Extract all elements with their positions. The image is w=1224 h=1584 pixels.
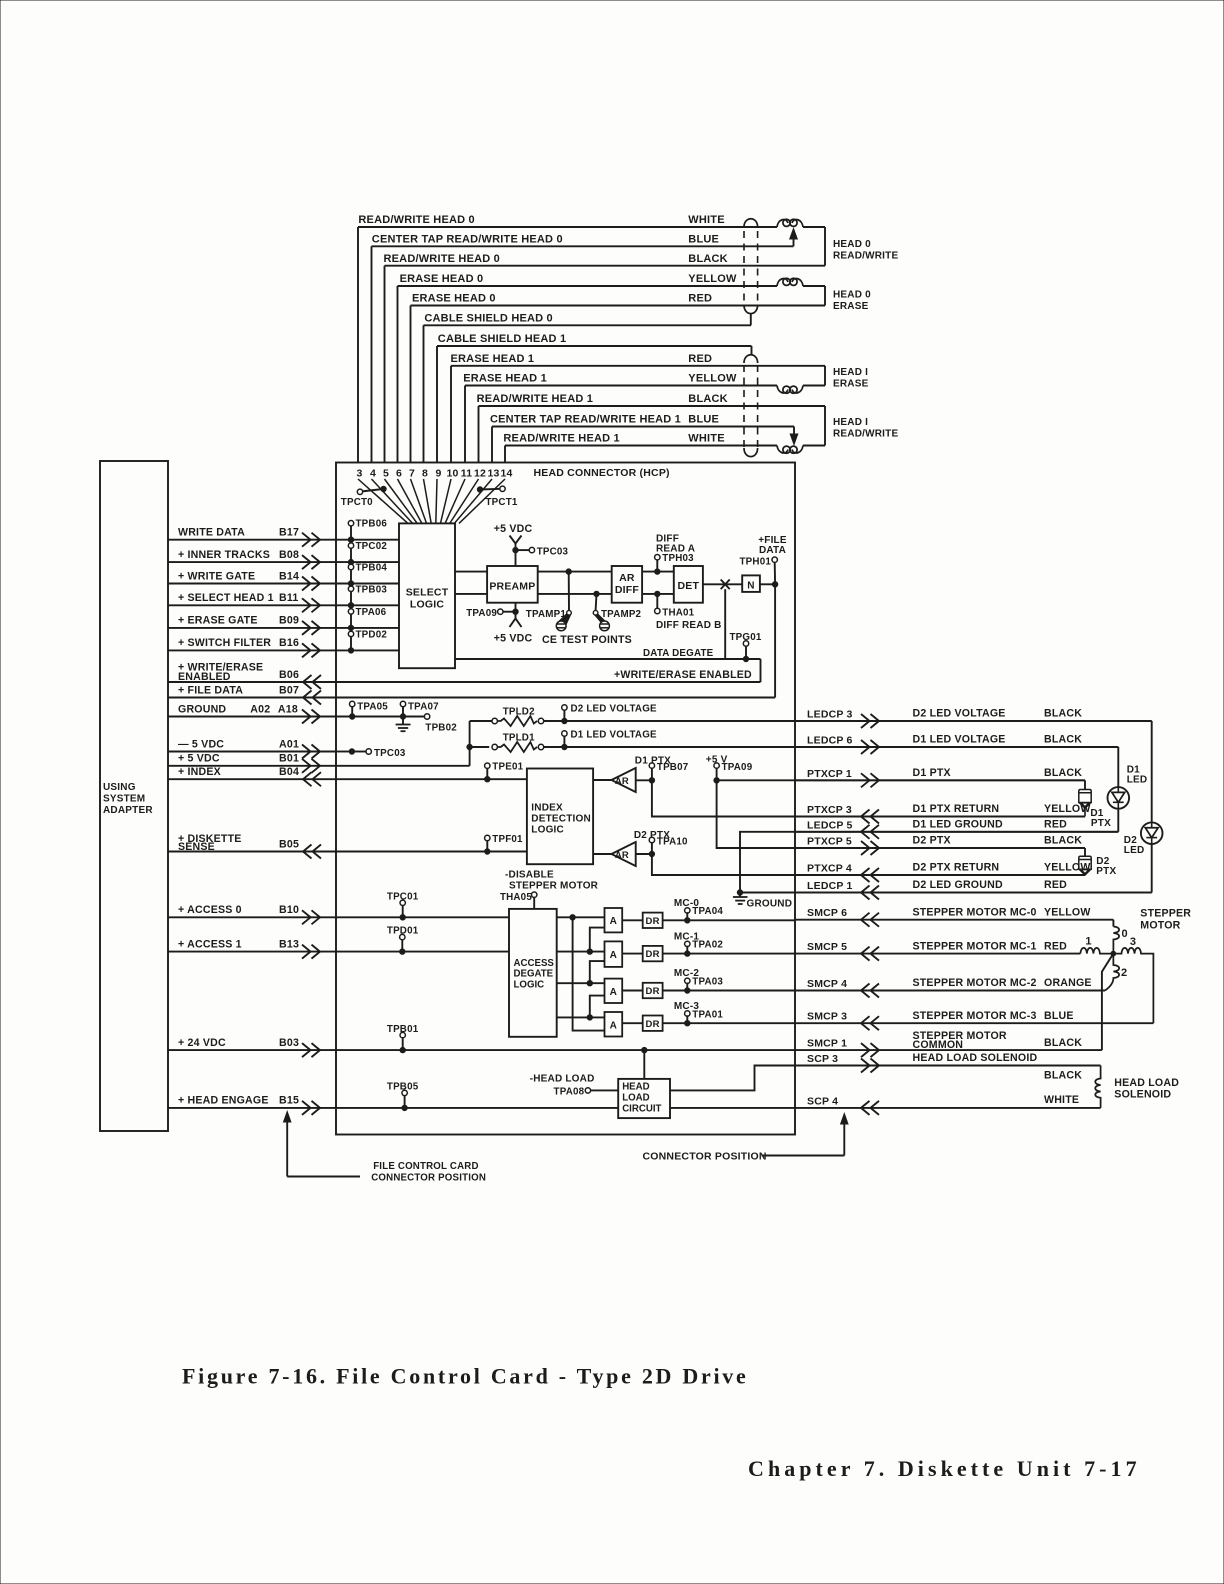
svg-text:N: N bbox=[747, 580, 754, 591]
test point TPA06 bbox=[350, 614, 352, 628]
chevron SMCP 6 bbox=[861, 913, 870, 927]
svg-text:TPC02: TPC02 bbox=[356, 541, 388, 552]
svg-text:+ HEAD ENGAGE: + HEAD ENGAGE bbox=[178, 1095, 269, 1107]
svg-text:LED: LED bbox=[1127, 775, 1148, 786]
chevron SCP 4 bbox=[861, 1101, 870, 1115]
wire + ACCESS 0 row bbox=[168, 916, 336, 918]
svg-text:3: 3 bbox=[356, 468, 362, 480]
wire +5VDC B01 to resistor feed bbox=[336, 765, 470, 767]
block SELECT LOGIC bbox=[399, 523, 455, 668]
chevron PTXCP 3 bbox=[861, 810, 870, 824]
wire head pin 8: CABLE SHIELD HEAD 0 bbox=[424, 325, 752, 462]
wire head pin 6: ERASE HEAD 0 bbox=[398, 286, 778, 463]
wire head pin 10: ERASE HEAD 1 bbox=[451, 366, 825, 463]
block HEAD LOAD CIRCUIT bbox=[618, 1079, 670, 1118]
svg-text:HEAD LOAD SOLENOID: HEAD LOAD SOLENOID bbox=[913, 1052, 1038, 1064]
wire D2 LED VOLTAGE bbox=[544, 720, 1152, 722]
svg-text:CE TEST POINTS: CE TEST POINTS bbox=[542, 634, 632, 646]
block INDEX DETECTION LOGIC bbox=[527, 769, 593, 865]
svg-text:PTX: PTX bbox=[1096, 866, 1116, 877]
svg-text:-HEAD LOAD: -HEAD LOAD bbox=[530, 1074, 595, 1085]
chevron LEDCP 5 bbox=[861, 825, 870, 839]
chevron B13 bbox=[312, 945, 321, 959]
test point TPB06 bbox=[350, 525, 352, 539]
svg-text:BLACK: BLACK bbox=[1044, 767, 1082, 779]
svg-text:— 5 VDC: — 5 VDC bbox=[178, 738, 224, 750]
svg-text:B16: B16 bbox=[279, 637, 299, 649]
amplifier A4 bbox=[605, 1012, 623, 1037]
stepper motor center node bbox=[1111, 951, 1116, 956]
svg-text:D1 LED VOLTAGE: D1 LED VOLTAGE bbox=[913, 734, 1006, 746]
svg-text:YELLOW: YELLOW bbox=[688, 373, 737, 385]
svg-text:Chapter 7. Diskette Unit 7-1: Chapter 7. Diskette Unit 7-17 bbox=[748, 1456, 1141, 1481]
wire B05 diskette sense inside bbox=[336, 851, 527, 853]
chevron SMCP 1 bbox=[871, 1043, 880, 1057]
chevron PTXCP 4 bbox=[861, 868, 870, 882]
wire + ACCESS 1 row bbox=[168, 951, 336, 953]
wire DR2 output MC-1 bbox=[663, 953, 795, 955]
wire preamp to AR DIFF (lower) bbox=[538, 593, 612, 595]
svg-text:3: 3 bbox=[1130, 936, 1136, 948]
wire head0 erase coil to bracket bbox=[803, 285, 825, 287]
svg-text:+ WRITE GATE: + WRITE GATE bbox=[178, 570, 255, 582]
coil head 1 erase L3 bbox=[777, 386, 788, 393]
svg-text:TPA02: TPA02 bbox=[692, 940, 723, 951]
svg-text:DR: DR bbox=[646, 1019, 660, 1030]
svg-text:HEAD I: HEAD I bbox=[833, 417, 868, 428]
chevron SCP 3 bbox=[871, 1059, 880, 1073]
wire SMCP 1 row bbox=[795, 1049, 1102, 1051]
test point TPB03 bbox=[350, 591, 352, 605]
stepper motor coil 0 bbox=[1112, 920, 1114, 927]
svg-text:BLACK: BLACK bbox=[1044, 1037, 1082, 1049]
svg-text:BLACK: BLACK bbox=[1044, 708, 1082, 720]
LED D1 bbox=[1117, 747, 1119, 787]
svg-text:+ ACCESS 1: + ACCESS 1 bbox=[178, 938, 242, 950]
wire preamp to AR DIFF (upper) bbox=[538, 571, 612, 573]
fan wires pins to select logic bbox=[358, 479, 505, 523]
svg-text:B14: B14 bbox=[279, 570, 299, 582]
svg-text:READ/WRITE: READ/WRITE bbox=[833, 428, 898, 439]
chevron A02 A18 bbox=[312, 710, 321, 724]
svg-text:A01: A01 bbox=[279, 738, 299, 750]
svg-text:TPCT1: TPCT1 bbox=[486, 497, 518, 508]
wire AR DIFF to DET (upper) bbox=[642, 571, 674, 573]
wire +ACCESS 0 inside bbox=[336, 916, 509, 918]
wire PTXCP 4 row bbox=[795, 874, 1085, 876]
chevron B16 bbox=[312, 643, 321, 657]
svg-text:MOTOR: MOTOR bbox=[1140, 920, 1180, 932]
chevron B08 bbox=[312, 555, 321, 569]
svg-text:TPA07: TPA07 bbox=[408, 702, 439, 713]
test point TPA09 (preamp) bbox=[513, 609, 518, 614]
amplifier A1 bbox=[605, 908, 623, 932]
chevron B14 bbox=[312, 577, 321, 591]
svg-text:TPD01: TPD01 bbox=[387, 926, 419, 937]
test point D1 LED VOLTAGE bbox=[562, 744, 567, 749]
svg-text:STEPPER: STEPPER bbox=[1140, 908, 1191, 920]
wire B06 row bbox=[168, 681, 336, 683]
svg-text:AR: AR bbox=[615, 850, 629, 861]
wire D1 LED VOLTAGE bbox=[544, 746, 1119, 748]
svg-text:STEPPER MOTOR: STEPPER MOTOR bbox=[509, 880, 599, 891]
chevron B07 bbox=[303, 691, 312, 705]
svg-text:LEDCP 5: LEDCP 5 bbox=[807, 819, 853, 831]
svg-text:SCP 4: SCP 4 bbox=[807, 1095, 838, 1107]
svg-text:TPB04: TPB04 bbox=[356, 563, 388, 574]
test point TPD02 bbox=[350, 636, 352, 650]
wire +FILE DATA vertical to B07 bbox=[774, 584, 776, 697]
using system adapter bus bbox=[100, 461, 168, 1131]
svg-text:ERASE HEAD 0: ERASE HEAD 0 bbox=[412, 293, 496, 305]
bracket head 1 read/write bbox=[824, 406, 826, 446]
driver DR2 bbox=[643, 946, 663, 961]
svg-text:LEDCP 6: LEDCP 6 bbox=[807, 735, 853, 747]
wire +ACCESS 1 inside bbox=[336, 951, 509, 953]
coil head 1 read/write L4 bbox=[777, 446, 788, 453]
svg-text:FILE CONTROL CARD: FILE CONTROL CARD bbox=[373, 1161, 478, 1172]
svg-text:STEPPER MOTOR MC-2: STEPPER MOTOR MC-2 bbox=[913, 977, 1037, 989]
svg-text:TPB05: TPB05 bbox=[387, 1081, 419, 1092]
wire + HEAD ENGAGE row bbox=[168, 1107, 336, 1109]
svg-text:STEPPER MOTOR MC-0: STEPPER MOTOR MC-0 bbox=[913, 906, 1037, 918]
svg-text:BLACK: BLACK bbox=[688, 253, 728, 265]
svg-text:LED: LED bbox=[1124, 845, 1145, 856]
svg-text:7: 7 bbox=[409, 468, 415, 480]
svg-text:+ INDEX: + INDEX bbox=[178, 766, 221, 778]
wire +5V to D2 PTX bbox=[717, 780, 1085, 848]
test point TPC03 (top) bbox=[513, 547, 518, 552]
wire B05 row bbox=[168, 851, 336, 853]
wire data degate riser to X bbox=[724, 589, 726, 659]
test point TPB04 bbox=[350, 569, 352, 583]
wire head pin 13: CENTER TAP READ/WRITE HEAD 1 bbox=[492, 427, 794, 463]
svg-text:WHITE: WHITE bbox=[688, 214, 724, 226]
svg-text:14: 14 bbox=[500, 468, 512, 480]
wire head1 erase coil to bracket bbox=[803, 385, 825, 387]
svg-text:D1 PTX RETURN: D1 PTX RETURN bbox=[913, 803, 1000, 815]
svg-text:CABLE SHIELD HEAD 1: CABLE SHIELD HEAD 1 bbox=[438, 333, 566, 345]
resistor TPLD1 bbox=[492, 744, 497, 749]
svg-text:TPLD1: TPLD1 bbox=[503, 732, 535, 743]
wire LEDCP 5 row bbox=[795, 831, 1118, 833]
svg-text:SYSTEM: SYSTEM bbox=[103, 794, 145, 805]
chevron SMCP 3 bbox=[861, 1016, 870, 1030]
svg-text:ERASE: ERASE bbox=[833, 301, 869, 312]
svg-text:B06: B06 bbox=[279, 669, 299, 681]
svg-text:A: A bbox=[610, 916, 617, 927]
wire + WRITE GATE row bbox=[168, 583, 336, 585]
svg-text:GROUND: GROUND bbox=[178, 703, 226, 715]
svg-text:DR: DR bbox=[646, 949, 660, 960]
svg-text:CONNECTOR POSITION: CONNECTOR POSITION bbox=[371, 1173, 486, 1184]
center tap arrow head 0 bbox=[793, 238, 795, 246]
svg-text:ERASE HEAD 1: ERASE HEAD 1 bbox=[463, 373, 547, 385]
wire + 24 VDC row bbox=[168, 1049, 336, 1051]
wire +24 VDC inside bbox=[336, 1049, 795, 1051]
chevron PTXCP 5 bbox=[871, 841, 880, 855]
svg-text:A: A bbox=[610, 1020, 617, 1031]
svg-text:LOGIC: LOGIC bbox=[410, 599, 444, 611]
svg-text:STEPPER MOTOR MC-1: STEPPER MOTOR MC-1 bbox=[913, 940, 1037, 952]
svg-text:+ FILE DATA: + FILE DATA bbox=[178, 684, 243, 696]
wire ground row inside bbox=[336, 716, 424, 718]
wire + SWITCH FILTER row bbox=[168, 649, 336, 651]
wire +24V to head load circuit bbox=[642, 1047, 647, 1052]
svg-text:PTXCP 1: PTXCP 1 bbox=[807, 768, 852, 780]
svg-text:TPH03: TPH03 bbox=[662, 553, 694, 564]
svg-text:TPD02: TPD02 bbox=[356, 629, 388, 640]
CE test point TPAMP2 bbox=[594, 591, 599, 596]
wire A1 to DR1 bbox=[622, 919, 643, 921]
svg-text:RED: RED bbox=[1044, 819, 1067, 831]
chevron B17 bbox=[312, 533, 321, 547]
svg-text:PTXCP 4: PTXCP 4 bbox=[807, 863, 852, 875]
svg-text:+5 VDC: +5 VDC bbox=[494, 523, 533, 535]
test point TPB05 bbox=[404, 1095, 406, 1108]
coil head 0 read/write L1 bbox=[777, 220, 788, 227]
svg-text:D1 PTX: D1 PTX bbox=[913, 767, 951, 779]
svg-text:CIRCUIT: CIRCUIT bbox=[622, 1104, 661, 1115]
test point TPA05 bbox=[351, 706, 353, 716]
test point TPB01 bbox=[402, 1037, 404, 1050]
svg-text:PTX: PTX bbox=[1091, 818, 1111, 829]
op-amp AR1 (index) bbox=[593, 779, 611, 781]
test point THA05 bbox=[532, 892, 537, 897]
svg-text:READ/WRITE HEAD 0: READ/WRITE HEAD 0 bbox=[358, 214, 474, 226]
wire WRITE DATA row bbox=[168, 539, 336, 541]
svg-text:READ/WRITE HEAD 1: READ/WRITE HEAD 1 bbox=[477, 393, 593, 405]
+5 VDC supply below preamp with TPA09 bbox=[515, 603, 517, 619]
wire select logic to preamp (lower) bbox=[455, 593, 487, 595]
wire access stub MC-1 bbox=[557, 951, 605, 953]
wire select logic to preamp (upper) bbox=[455, 571, 487, 573]
block N bbox=[742, 575, 760, 592]
wire PTXCP 3 row bbox=[795, 816, 1085, 818]
svg-text:LEDCP 1: LEDCP 1 bbox=[807, 880, 853, 892]
svg-text:0: 0 bbox=[1122, 928, 1128, 940]
phototransistor D1 PTX bbox=[1084, 780, 1086, 789]
svg-text:B13: B13 bbox=[279, 938, 299, 950]
svg-text:RED: RED bbox=[688, 293, 712, 305]
svg-text:CENTER TAP READ/WRITE HEAD 0: CENTER TAP READ/WRITE HEAD 0 bbox=[372, 234, 563, 246]
svg-text:YELLOW: YELLOW bbox=[688, 273, 737, 285]
wire SMCP 6 row bbox=[795, 919, 1113, 921]
svg-text:HEAD 0: HEAD 0 bbox=[833, 239, 871, 250]
test point TPA08 bbox=[585, 1088, 590, 1093]
svg-text:TPAMP1: TPAMP1 bbox=[526, 609, 567, 620]
svg-text:B08: B08 bbox=[279, 549, 299, 561]
svg-text:WHITE: WHITE bbox=[1044, 1094, 1079, 1106]
svg-text:YELLOW: YELLOW bbox=[1044, 906, 1091, 918]
bracket head 0 erase bbox=[824, 286, 826, 306]
svg-text:+ INNER TRACKS: + INNER TRACKS bbox=[178, 549, 270, 561]
test point TPB07 bbox=[651, 768, 653, 780]
svg-text:+ SELECT HEAD 1: + SELECT HEAD 1 bbox=[178, 592, 274, 604]
svg-text:11: 11 bbox=[461, 468, 473, 480]
CE test point TPAMP1 bbox=[566, 569, 571, 574]
svg-text:DR: DR bbox=[646, 916, 660, 927]
svg-text:+ 24 VDC: + 24 VDC bbox=[178, 1037, 226, 1049]
test point TPG01 bbox=[743, 656, 748, 661]
svg-text:SMCP 3: SMCP 3 bbox=[807, 1011, 847, 1023]
block AR DIFF bbox=[612, 566, 642, 603]
svg-text:5: 5 bbox=[383, 468, 389, 480]
svg-text:LOGIC: LOGIC bbox=[514, 980, 545, 991]
wire GROUND row bbox=[168, 716, 336, 718]
wire stub1 to A4 lower bbox=[573, 917, 605, 1030]
svg-text:A18: A18 bbox=[278, 703, 298, 715]
wire head pin 7: ERASE HEAD 0 bbox=[411, 306, 826, 463]
stepper motor coil 2 bbox=[1105, 954, 1119, 991]
svg-text:AR: AR bbox=[619, 572, 635, 584]
svg-text:LOAD: LOAD bbox=[622, 1093, 649, 1104]
wire — 5 VDC row bbox=[168, 751, 336, 753]
svg-text:ERASE HEAD 1: ERASE HEAD 1 bbox=[451, 353, 535, 365]
wire A3 to DR3 bbox=[622, 990, 643, 992]
svg-text:RED: RED bbox=[1044, 940, 1067, 952]
stepper motor coil 3 bbox=[1113, 948, 1153, 1023]
svg-text:ADAPTER: ADAPTER bbox=[103, 805, 153, 816]
svg-text:BLACK: BLACK bbox=[1044, 835, 1082, 847]
svg-text:TPB02: TPB02 bbox=[425, 723, 457, 734]
wire A4 to DR4 bbox=[622, 1022, 643, 1024]
svg-text:DETECTION: DETECTION bbox=[531, 814, 591, 825]
svg-text:WRITE DATA: WRITE DATA bbox=[178, 527, 245, 539]
resistor TPLD2 bbox=[492, 718, 497, 723]
wire D1 PTX RETURN bbox=[652, 780, 1085, 816]
svg-text:TPB01: TPB01 bbox=[387, 1024, 419, 1035]
svg-text:AR: AR bbox=[615, 776, 629, 787]
block DET bbox=[674, 566, 703, 603]
wire A2 to DR2 bbox=[622, 953, 643, 955]
svg-text:+5 VDC: +5 VDC bbox=[494, 633, 533, 645]
svg-text:TPA06: TPA06 bbox=[356, 607, 387, 618]
wire -5VDC inside with TPC03 bbox=[336, 751, 352, 753]
svg-text:BLACK: BLACK bbox=[1044, 1070, 1082, 1082]
svg-text:STEPPER MOTOR MC-3: STEPPER MOTOR MC-3 bbox=[913, 1010, 1037, 1022]
svg-text:SCP 3: SCP 3 bbox=[807, 1053, 838, 1065]
svg-text:TPB06: TPB06 bbox=[356, 519, 388, 530]
LED D2 bbox=[1151, 721, 1153, 822]
svg-text:HEAD: HEAD bbox=[622, 1082, 649, 1093]
chevron B01 bbox=[312, 759, 321, 773]
svg-text:TPG01: TPG01 bbox=[730, 632, 762, 643]
wire + SELECT HEAD 1 row bbox=[168, 604, 336, 606]
svg-text:USING: USING bbox=[103, 782, 136, 793]
pin numerals 3-14 bbox=[356, 468, 512, 480]
svg-text:TPA03: TPA03 bbox=[692, 977, 723, 988]
svg-text:A02: A02 bbox=[250, 703, 270, 715]
head load solenoid coil bbox=[1095, 1066, 1100, 1108]
wire head pin 11: ERASE HEAD 1 bbox=[465, 386, 777, 463]
svg-text:DIFF: DIFF bbox=[615, 584, 640, 596]
svg-text:CONNECTOR POSITION: CONNECTOR POSITION bbox=[643, 1151, 767, 1163]
svg-text:SMCP 1: SMCP 1 bbox=[807, 1038, 847, 1050]
wire head pin 12: READ/WRITE HEAD 1 bbox=[479, 406, 826, 463]
svg-text:TPA04: TPA04 bbox=[692, 906, 723, 917]
bracket head 0 read/write bbox=[824, 227, 826, 266]
test point TPH03 bbox=[655, 555, 660, 560]
svg-text:13: 13 bbox=[487, 468, 499, 480]
cable shield head 1 bbox=[751, 346, 753, 355]
svg-text:SMCP 6: SMCP 6 bbox=[807, 907, 847, 919]
block ACCESS DEGATE LOGIC bbox=[509, 909, 557, 1037]
svg-text:BLUE: BLUE bbox=[1044, 1010, 1074, 1022]
wire D2 PTX RETURN bbox=[652, 854, 1085, 875]
svg-text:B09: B09 bbox=[279, 615, 299, 627]
svg-text:INDEX: INDEX bbox=[531, 803, 563, 814]
svg-text:TPE01: TPE01 bbox=[492, 762, 523, 773]
svg-text:CENTER TAP READ/WRITE HEAD 1: CENTER TAP READ/WRITE HEAD 1 bbox=[490, 414, 681, 426]
wire head load out to SCP 3 bbox=[670, 1066, 795, 1091]
test point THA01 bbox=[655, 591, 660, 596]
amplifier A3 bbox=[605, 979, 623, 1003]
chevron B11 bbox=[312, 598, 321, 612]
svg-text:TPCT0: TPCT0 bbox=[341, 497, 373, 508]
svg-text:TPF01: TPF01 bbox=[492, 834, 523, 845]
wire + ERASE GATE row bbox=[168, 627, 336, 629]
wire AR1 input node bbox=[636, 779, 652, 781]
svg-text:A: A bbox=[610, 950, 617, 961]
test point D2 LED VOLTAGE bbox=[562, 718, 567, 723]
svg-text:ORANGE: ORANGE bbox=[1044, 977, 1092, 989]
svg-text:COMMON: COMMON bbox=[913, 1039, 964, 1051]
svg-text:SMCP 4: SMCP 4 bbox=[807, 978, 847, 990]
svg-text:12: 12 bbox=[474, 468, 486, 480]
chevron B15 bbox=[312, 1101, 321, 1115]
test point TPH01 bbox=[774, 562, 776, 584]
wire head pin 3: READ/WRITE HEAD 0 bbox=[358, 227, 777, 463]
X mark data degate bbox=[721, 580, 730, 590]
svg-text:TPA05: TPA05 bbox=[357, 702, 388, 713]
svg-text:Figure 7-16. File Control Car: Figure 7-16. File Control Card - Type 2D… bbox=[182, 1364, 749, 1389]
test point TPC01 bbox=[402, 905, 404, 917]
svg-text:TPC01: TPC01 bbox=[387, 891, 419, 902]
wire D1 PTX (+5V) out bbox=[717, 779, 1085, 781]
chassis ground symbol bbox=[739, 893, 741, 898]
svg-text:DET: DET bbox=[677, 580, 699, 592]
wire head pin 4: CENTER TAP READ/WRITE HEAD 0 bbox=[372, 246, 794, 462]
wire LEDCP 1 row bbox=[795, 892, 1152, 894]
chevron SMCP 5 bbox=[861, 947, 870, 961]
wire head1 read/write coil to bracket bbox=[803, 445, 825, 447]
svg-text:THA05: THA05 bbox=[500, 892, 532, 903]
wire access stub MC-2 bbox=[557, 982, 605, 984]
wire N output to +FILE DATA node bbox=[760, 583, 775, 585]
svg-text:ENABLED: ENABLED bbox=[178, 671, 231, 683]
wire PTXCP 1 row bbox=[795, 779, 1085, 781]
svg-text:DIFF READ B: DIFF READ B bbox=[656, 620, 722, 631]
driver DR3 bbox=[643, 983, 663, 998]
svg-text:-DISABLE: -DISABLE bbox=[505, 869, 554, 880]
svg-text:B03: B03 bbox=[279, 1037, 299, 1049]
wire + 5 VDC row bbox=[168, 765, 336, 767]
chevron B03 bbox=[312, 1043, 321, 1057]
chevron LEDCP 1 bbox=[861, 886, 870, 900]
svg-text:TPC03: TPC03 bbox=[537, 546, 569, 557]
wire DR3 output MC-2 bbox=[663, 990, 795, 992]
wire SCP 3 row bbox=[795, 1065, 1101, 1067]
wire DR1 output MC-0 bbox=[663, 919, 795, 921]
wire + INNER TRACKS row bbox=[168, 561, 336, 563]
svg-text:+ SWITCH FILTER: + SWITCH FILTER bbox=[178, 637, 271, 649]
svg-text:SELECT: SELECT bbox=[406, 587, 449, 599]
svg-text:READ/WRITE HEAD 0: READ/WRITE HEAD 0 bbox=[384, 253, 500, 265]
wire PTXCP 5 row bbox=[795, 847, 1085, 849]
svg-text:9: 9 bbox=[435, 468, 441, 480]
wire LEDCP 3 row bbox=[795, 720, 1152, 722]
